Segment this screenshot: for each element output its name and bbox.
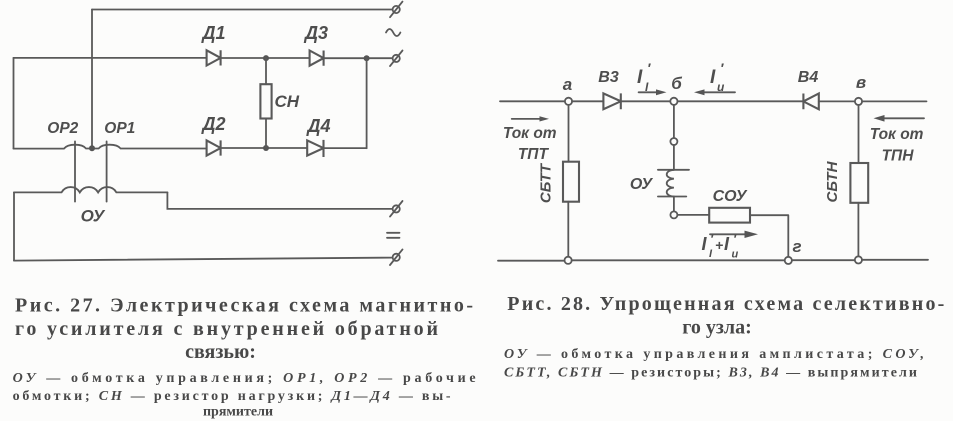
svg-text:СБТТ: СБТТ: [538, 162, 555, 203]
AC symbol ~: [386, 29, 400, 36]
svg-text:ТПТ: ТПТ: [518, 146, 550, 163]
svg-text:го узла:: го узла:: [682, 317, 752, 339]
wire: node а down to СБТТ: [568, 105, 570, 162]
wire: to СОУ: [677, 214, 709, 216]
svg-text:г: г: [792, 237, 801, 256]
wire: top bridge rail: [14, 57, 207, 59]
junction dot CH bottom: [263, 145, 269, 151]
resistor СБТТ: [563, 162, 579, 202]
current arrow I't: [639, 89, 667, 95]
wire: node в to right edge: [862, 100, 926, 102]
diode Д4: [307, 140, 323, 157]
wire: bottom rail Д2 to Д4: [221, 147, 308, 149]
svg-text:прямители: прямители: [203, 405, 273, 420]
svg-text:Д1: Д1: [200, 23, 225, 43]
node а: [565, 98, 572, 105]
winding ОУ core tick top: [658, 169, 689, 171]
node в: [855, 98, 862, 105]
resistor СОУ: [709, 208, 750, 223]
terminal AC top: [390, 2, 403, 18]
wire: top AC lead: [92, 9, 392, 11]
wire: circle to winding: [673, 145, 675, 170]
connector circle upper: [670, 138, 677, 145]
wire: bottom rail segments: [498, 259, 928, 262]
svg-text:обмотки; СН — резистор нагрузк: обмотки; СН — резистор нагрузки; Д1—Д4 —…: [13, 389, 451, 404]
wire: left control rail: [13, 192, 15, 260]
resistor СН: [260, 84, 271, 118]
wire: winding to lower circle: [673, 197, 675, 212]
svg-text:Рис. 28. Упрощенная схема селе: Рис. 28. Упрощенная схема селективно-: [507, 293, 944, 315]
wire: СН top lead: [265, 58, 267, 84]
wire: СН bottom lead: [265, 119, 267, 149]
wire: bottom rail Д4 to right vertical: [324, 147, 367, 149]
svg-text:ОР1: ОР1: [104, 120, 135, 137]
svg-text:Ток от: Ток от: [870, 126, 924, 143]
svg-text:СБТТ, СБТН — резисторы; В3, В4: СБТТ, СБТН — резисторы; В3, В4 — выпрями…: [504, 366, 917, 381]
wire: top rail Д3 to terminal: [324, 57, 393, 59]
DC symbol =: [387, 233, 400, 238]
winding ОУ (fig 28, three left humps): [667, 170, 674, 197]
wire: bottom bridge rail with ОР2 / ОР1 winding humps: [14, 145, 207, 149]
wire: СБТН to bottom node: [857, 203, 859, 256]
svg-text:В3: В3: [598, 69, 619, 86]
node г: [785, 257, 792, 264]
svg-text:ОУ: ОУ: [630, 176, 653, 193]
svg-text:СБТН: СБТН: [824, 160, 841, 202]
winding core ОР2: [74, 141, 76, 201]
svg-text:связью:: связью:: [185, 341, 256, 363]
svg-text:В4: В4: [798, 69, 819, 86]
wire: top rail left segment: [500, 100, 565, 102]
junction dot right top: [364, 55, 370, 61]
wire: ОУ output step to terminal: [167, 192, 392, 209]
wire: node в down to СБТН: [858, 105, 860, 163]
svg-text:ОУ: ОУ: [81, 207, 106, 226]
current arrow I't+I'и: [710, 231, 758, 238]
node bottom right: [855, 256, 862, 263]
wire: СОУ to node г: [750, 215, 788, 257]
svg-text:ОР2: ОР2: [47, 120, 78, 137]
terminal DC minus: [390, 249, 403, 265]
svg-text:а: а: [563, 75, 572, 94]
winding ОУ core tick bottom: [658, 196, 686, 198]
wire: node б to В4: [678, 100, 804, 102]
svg-text:Д3: Д3: [303, 23, 328, 43]
diode В3: [603, 93, 620, 109]
diode Д3: [310, 51, 324, 66]
wire: right bridge vertical: [366, 58, 368, 148]
svg-text:СН: СН: [275, 92, 300, 111]
node bottom left: [565, 257, 572, 264]
svg-text:СОУ: СОУ: [713, 188, 748, 205]
wire: node б stub down: [673, 105, 675, 138]
diode Д1: [207, 50, 221, 65]
current arrow I'и: [694, 89, 735, 95]
terminal DC plus: [390, 201, 403, 217]
current arrow Ток от ТПТ: [512, 116, 549, 121]
wire: vertical from top lead down to winding junction: [91, 10, 93, 149]
junction dot CH top: [263, 55, 269, 61]
svg-text:го усилителя с внутренней обра: го усилителя с внутренней обратной: [15, 318, 438, 340]
terminal AC bottom: [390, 51, 403, 67]
junction dot windings: [89, 145, 95, 151]
svg-text:ТПН: ТПН: [882, 148, 915, 165]
svg-text:I′и: I′и: [710, 60, 725, 94]
svg-text:I′I+I′и: I′I+I′и: [702, 232, 739, 261]
svg-text:ОУ — обмотка управления амплис: ОУ — обмотка управления амплистата; СОУ,: [504, 347, 924, 362]
wire: left bridge rail: [13, 58, 15, 149]
svg-text:Рис. 27. Электрическая схема м: Рис. 27. Электрическая схема магнитно-: [15, 295, 473, 317]
svg-text:Д2: Д2: [200, 114, 225, 134]
wire: СБТТ to bottom node: [567, 202, 569, 257]
connector circle lower: [670, 211, 677, 218]
svg-text:I′I: I′I: [637, 60, 651, 94]
wire: В3 to node б: [621, 100, 671, 102]
winding ОУ (three humps): [14, 187, 167, 192]
node б: [670, 98, 677, 105]
svg-text:Д4: Д4: [305, 116, 330, 136]
resistor СБТН: [850, 163, 868, 203]
diode Д2: [207, 140, 221, 155]
svg-text:Ток от: Ток от: [503, 125, 557, 142]
winding core ОР1: [106, 141, 108, 201]
wire: bottom return: [14, 258, 392, 261]
wire: node а to В3: [572, 100, 603, 102]
wire: В4 to node в: [819, 100, 855, 102]
current arrow Ток от ТПН (points left): [874, 115, 925, 122]
svg-text:в: в: [856, 73, 866, 92]
svg-text:б: б: [671, 74, 682, 93]
wire: top rail Д1 to Д3: [221, 57, 310, 59]
svg-text:ОУ — обмотка управления; ОР1,: ОУ — обмотка управления; ОР1, ОР2 — рабо…: [13, 371, 476, 386]
diode В4 (points left): [803, 94, 818, 110]
